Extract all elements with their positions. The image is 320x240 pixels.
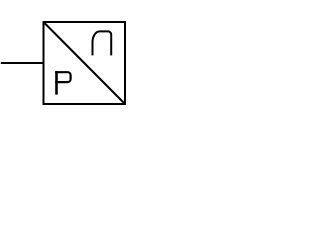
label P stem — [55, 71, 58, 95]
transducer box — [44, 22, 126, 104]
arch symbol — [93, 31, 112, 55]
label P bowl — [55, 72, 70, 82]
wire — [1, 62, 44, 64]
diagonal divider — [44, 22, 126, 104]
